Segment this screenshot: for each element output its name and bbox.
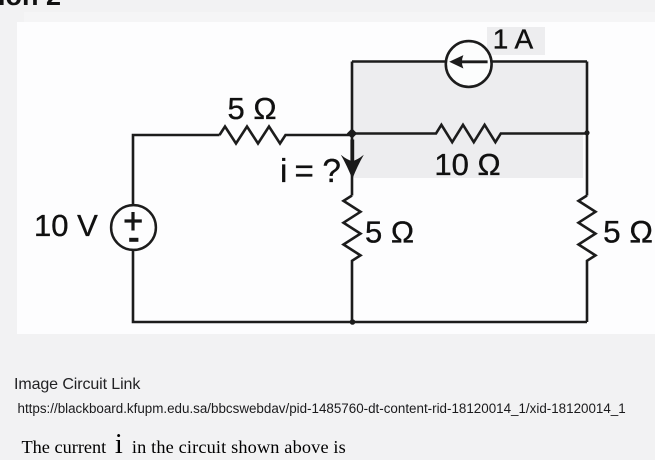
svg-text:i: i — [280, 152, 287, 189]
svg-text:10 Ω: 10 Ω — [434, 147, 500, 182]
svg-text:?: ? — [323, 152, 341, 189]
svg-text:5 Ω: 5 Ω — [365, 215, 414, 250]
svg-text:1 A: 1 A — [493, 24, 534, 55]
svg-text:10 V: 10 V — [34, 208, 98, 243]
svg-text:5 Ω: 5 Ω — [603, 214, 653, 250]
svg-text:=: = — [295, 152, 314, 189]
svg-text:5 Ω: 5 Ω — [227, 91, 276, 126]
